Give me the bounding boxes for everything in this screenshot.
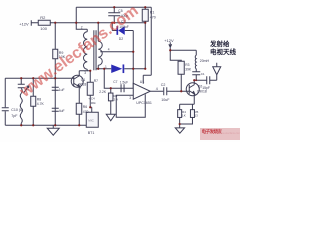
svg-text:1.5uF: 1.5uF <box>120 80 128 84</box>
svg-text:1K: 1K <box>182 114 186 118</box>
svg-text:2.4: 2.4 <box>113 98 118 102</box>
svg-text:R3: R3 <box>185 63 189 67</box>
svg-text:7pF: 7pF <box>11 114 18 118</box>
svg-text:4uF: 4uF <box>59 109 65 113</box>
svg-text:+12V: +12V <box>164 38 174 43</box>
svg-text:C7: C7 <box>113 80 117 84</box>
svg-text:R8: R8 <box>37 97 41 101</box>
svg-text:U1: U1 <box>140 80 145 84</box>
svg-text:2: 2 <box>81 25 83 29</box>
svg-text:1uF: 1uF <box>59 88 65 92</box>
svg-text:UPC1651: UPC1651 <box>136 101 152 105</box>
svg-text:4.7K: 4.7K <box>37 102 45 106</box>
svg-text:R7: R7 <box>94 79 98 83</box>
svg-text:39K: 39K <box>185 67 192 71</box>
svg-text:+12V: +12V <box>19 21 29 26</box>
svg-text:C10 (L): C10 (L) <box>11 108 23 112</box>
svg-text:D2: D2 <box>119 37 123 41</box>
svg-text:1: 1 <box>105 65 107 69</box>
svg-text:100: 100 <box>40 26 47 31</box>
svg-text:30k: 30k <box>91 101 96 105</box>
svg-text:R6: R6 <box>83 105 87 109</box>
svg-text:10uF: 10uF <box>161 98 170 102</box>
svg-text:470: 470 <box>83 110 89 114</box>
svg-text:R2: R2 <box>40 15 46 20</box>
svg-text:13: 13 <box>194 114 198 118</box>
svg-text:Q1: Q1 <box>81 78 86 82</box>
svg-text:470: 470 <box>150 15 156 19</box>
svg-text:20mH: 20mH <box>200 59 210 63</box>
svg-text:3: 3 <box>84 71 86 75</box>
svg-text:9018: 9018 <box>79 82 87 86</box>
svg-text:4: 4 <box>108 47 110 51</box>
svg-text:R1: R1 <box>150 10 155 14</box>
svg-text:3: 3 <box>129 96 131 100</box>
svg-text:MIC: MIC <box>88 118 94 122</box>
svg-text:2.2K: 2.2K <box>99 90 107 94</box>
svg-text:Q2: Q2 <box>198 84 203 88</box>
svg-text:C9018: C9018 <box>197 89 207 93</box>
svg-text:+ C4: + C4 <box>88 96 95 100</box>
svg-text:C1: C1 <box>201 72 205 76</box>
svg-text:C2: C2 <box>161 83 166 87</box>
svg-text:BT1: BT1 <box>88 131 95 135</box>
svg-text:4: 4 <box>156 87 158 91</box>
